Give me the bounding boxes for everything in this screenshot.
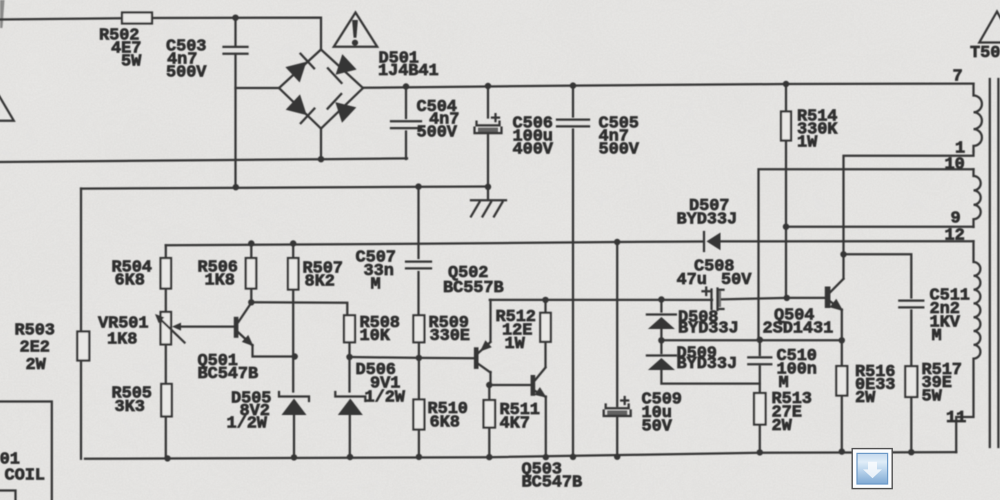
capacitor C506 100u electrolytic [475,114,502,133]
svg-text:1/2W: 1/2W [365,388,406,407]
wire base wire Q502 [350,357,475,358]
svg-text:1K8: 1K8 [107,330,137,349]
svg-text:T50: T50 [970,44,1000,63]
svg-text:6K8: 6K8 [430,413,460,432]
transistor Q501 BC547B [172,303,254,347]
wire bridge AC bottom stub [320,129,322,160]
resistor R502 4E7 [122,13,152,24]
wire R503 branch [80,189,82,459]
node C507 tap [415,183,421,189]
wire C506/ground branch [487,86,489,200]
node minus-ground [485,184,491,190]
diode D508 BYD33J [647,315,676,330]
svg-text:5W: 5W [922,388,943,407]
transistor Q503 BC547B [531,368,547,398]
resistor R512 12E [540,313,551,342]
svg-text:400V: 400V [513,140,554,159]
label C511 [930,286,970,346]
resistor R509 330E [413,315,424,342]
node pin9-R514 [783,224,789,230]
label R517 [922,361,962,407]
node rail R511 [486,454,492,460]
svg-text:2W: 2W [855,389,876,408]
label D501 [378,49,439,81]
label pin 7 [953,67,963,86]
resistor R510 6K8 [413,400,424,430]
label R514 [797,107,838,152]
node Q501 collector [248,299,254,305]
node R514 tap [783,81,789,87]
label R507 [303,259,343,291]
node emitter-D508 bus [839,337,845,343]
wire xfmr pin9 link [786,226,974,228]
wire Q502 emitter up [489,300,491,342]
wire C505 branch [572,86,574,457]
diode D507 BYD33J [704,232,721,251]
resistor R503 2E2 [77,332,89,361]
resistor R508 10K [344,315,355,342]
zener D505 8V2 [279,392,309,415]
node rail R505 [164,455,170,461]
resistor R517 39E [905,366,917,397]
label R513 [772,390,812,436]
label C509 [642,391,682,437]
wire R508 D506 chain [348,343,351,458]
node D508 top [658,296,664,302]
resistor R514 330K [781,112,791,141]
warning triangle D501 [334,13,377,47]
wire Q504 emitter chain [841,310,843,452]
resistor R506 1K8 [246,258,257,289]
label R510 [428,400,468,433]
resistor R504 6K8 [161,258,172,289]
label VR501 [98,314,149,349]
label C510 [777,347,817,393]
capacitor C504 4n7 [391,121,421,128]
label D506 [356,361,406,408]
wire xfmr pin10 link [759,169,974,339]
wire R512 chain [544,300,546,367]
transistor Q504 2SD1431 [825,279,844,311]
wire base drive bus [166,241,974,245]
label R506 [198,258,238,290]
svg-text:BYD33J: BYD33J [677,355,738,374]
label C504 [417,98,460,143]
wire Q501 emitter link [253,345,295,357]
label R505 [112,384,152,417]
label coil module [0,451,45,486]
capacitor C508 47u electrolytic [703,288,724,311]
scroll-down button [852,449,892,489]
potentiometer VR501 body [161,312,172,345]
node rail Q503e [543,454,549,460]
bridge diode upper-right [328,54,357,83]
zener D506 9V1 [335,392,365,415]
wire C511-R517 chain [910,311,912,453]
svg-text:500V: 500V [599,140,640,159]
label T50 [970,44,1000,63]
wire R511 down [488,385,490,457]
transformer T50x winding pins 7-1 [974,84,982,152]
svg-text:9: 9 [951,209,961,228]
wire C504 branch [405,87,407,160]
label pin 11 [946,409,966,428]
svg-text:6K8: 6K8 [115,271,145,290]
potentiometer VR501 wiper arrow [158,317,185,343]
node C508-Q504 base [784,295,790,301]
wire neg rail under bridge [0,158,407,162]
resistor R507 8K2 [288,258,299,290]
node rail C505 [570,454,576,460]
capacitor C507 33n [406,262,431,269]
label R502 [99,26,142,71]
label R503 [15,321,55,375]
bridge diode upper-left [285,54,314,83]
svg-text:3K3: 3K3 [115,398,145,417]
bridge diode lower-left [286,94,315,123]
svg-text:BC547B: BC547B [198,365,259,384]
diode D509 BYD33J [647,356,676,371]
svg-text:1J4B41: 1J4B41 [378,62,439,81]
ground symbol [471,200,506,216]
label D508 [678,309,739,339]
warning triangle mains (left edge, partial) [0,86,14,121]
wire DC+ rail [363,84,974,88]
wire C510-R513 chain [759,340,761,453]
warning triangle T50x [979,12,1000,43]
scan artifact top-left edge [0,0,5,28]
node bridge neg [318,156,324,162]
label pin 1 [955,139,965,158]
node rail D505 [291,454,297,460]
degaussing coil module box [0,402,52,500]
svg-text:10K: 10K [360,327,391,346]
wire D505 anode [293,416,295,458]
label C508 [677,257,753,290]
node rail R513 [757,449,763,455]
wire R504-VR501-R505 chain [165,289,167,459]
wire snubber top link [844,254,912,297]
node rail C509 [614,454,620,460]
label D507 [677,197,738,230]
svg-text:1W: 1W [797,133,818,152]
wire R506 branch [250,244,252,303]
node D508 bus-C510 [757,337,763,343]
svg-text:BYD33J: BYD33J [678,319,739,338]
svg-text:COIL: COIL [5,467,45,486]
transformer winding pins 12-11 [956,241,980,452]
wire R509-R510 chain [418,343,420,457]
node R508 out [346,354,352,360]
svg-text:M: M [371,275,381,294]
svg-text:7: 7 [953,67,963,86]
node R509-R510-base [416,355,422,361]
node R502-C503 [232,15,238,21]
wire R507 branch [292,244,294,392]
node D508 anode [658,337,664,343]
svg-text:330E: 330E [430,327,470,346]
svg-text:11: 11 [946,409,966,428]
label R508 [360,314,400,346]
node C509 tap [614,239,620,245]
wire Q504 collector up [842,254,844,279]
node rail R516 [839,448,845,454]
wire C503 branch [234,18,236,188]
svg-text:2SD1431: 2SD1431 [763,320,834,339]
label pin 9 [951,209,961,228]
wire Q502-Q503 base link [489,384,531,386]
wire Q501 collector link [251,302,347,315]
svg-text:10: 10 [945,155,965,174]
svg-text:2W: 2W [26,356,47,375]
label C506 [513,114,554,159]
transformer winding pins 10-9 [974,169,981,227]
node C503-minus bus [233,184,239,190]
node rail R517 [908,449,914,455]
label R504 [112,258,152,290]
wire Q502 collector down [489,372,491,385]
node Q502 collector [486,382,492,388]
svg-text:47u: 47u [677,271,707,290]
svg-text:50V: 50V [642,418,673,437]
transistor Q502 BC557B [474,340,492,372]
coil module inner corner [0,491,16,500]
node R506 top [248,240,254,246]
svg-text:500V: 500V [417,124,458,143]
node bridge out C504 [403,83,409,89]
capacitor C505 4n7 [557,120,589,127]
wire D508 out bus [661,339,841,341]
svg-text:1W: 1W [505,335,526,354]
node rail R510 [416,454,422,460]
svg-text:8K2: 8K2 [305,272,335,291]
svg-text:M: M [932,327,942,346]
node Q501 emitter-R507 [292,353,298,359]
label C507 [356,248,396,294]
node pin1-collector [840,251,846,257]
svg-text:BC547B: BC547B [522,474,583,493]
transformer core [990,79,999,447]
capacitor C503 4n7 [224,47,248,54]
label pin 10 [945,155,965,174]
label R511 [500,401,540,434]
wire C507 branch [417,187,419,317]
wire Q503 emitter down [545,397,547,458]
wire xfmr pin1 link [844,152,974,255]
wire mains top [0,18,321,50]
node R512 top [542,297,548,303]
capacitor C511 2n2 [899,301,923,308]
svg-text:2W: 2W [772,417,793,436]
wire bridge AC left [236,87,280,89]
node C506 tap [485,83,491,89]
resistor R505 3K3 [161,384,172,417]
resistor R513 27E [754,393,766,425]
svg-text:500V: 500V [166,63,207,82]
label D509 [677,345,738,375]
label D505 [227,389,272,433]
svg-text:4K7: 4K7 [500,414,530,433]
svg-text:2E2: 2E2 [20,338,50,357]
bridge diode lower-right [328,94,357,123]
node R507 top [290,240,296,246]
wire D509 out link [661,371,759,384]
svg-text:BC557B: BC557B [443,279,504,298]
label pin 12 [945,227,965,246]
svg-text:BYD33J: BYD33J [677,210,738,229]
label C503 [166,37,207,82]
svg-text:5W: 5W [121,52,142,71]
bridge diamond [279,50,363,129]
label Q501 [198,352,259,384]
svg-text:1K8: 1K8 [205,271,235,290]
wire C509 branch [616,242,618,457]
label C505 [599,114,640,159]
svg-text:1/2W: 1/2W [227,414,268,433]
node C505 tap [570,82,576,88]
node rail D506 [347,454,353,460]
wire Vref bus [490,298,826,300]
label Q503 [522,460,583,492]
label Q502 [443,264,504,298]
capacitor C509 10u electrolytic [604,397,631,416]
svg-text:50V: 50V [721,271,752,290]
label R512 [496,308,536,354]
wire R514 branch [785,84,787,298]
label R509 [429,314,470,346]
label R516 [855,363,895,408]
wire D508-D509 link [660,329,662,354]
wire ground rail [85,452,956,459]
svg-text:12: 12 [945,227,965,246]
label Q504 [763,307,834,339]
resistor R511 4K7 [484,400,496,428]
wire minus bus [81,187,488,189]
resistor R516 0E33 [836,366,847,396]
wire D508 cathode up [660,300,662,312]
capacitor C510 100n [748,357,771,364]
wire R504 top feed [165,245,167,258]
